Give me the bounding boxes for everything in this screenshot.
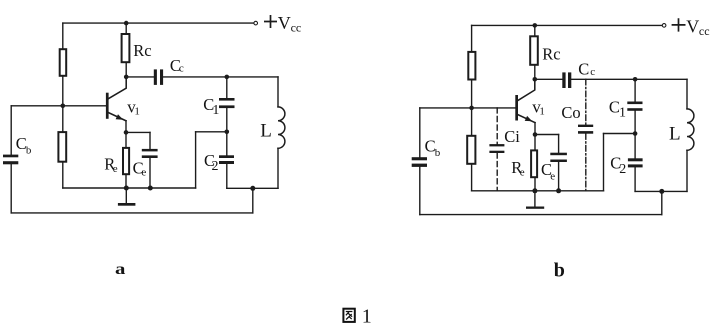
svg-text:e: e xyxy=(520,167,525,179)
svg-text:Rc: Rc xyxy=(133,41,151,60)
svg-text:b: b xyxy=(26,144,32,156)
svg-text:Co: Co xyxy=(561,103,580,122)
svg-text:1: 1 xyxy=(362,306,372,328)
svg-text:1: 1 xyxy=(134,105,140,117)
svg-text:1: 1 xyxy=(619,106,626,121)
svg-text:cc: cc xyxy=(699,24,710,38)
svg-text:a: a xyxy=(115,261,125,278)
svg-text:e: e xyxy=(113,163,118,175)
svg-text:V: V xyxy=(686,16,699,36)
svg-text:e: e xyxy=(550,170,555,182)
svg-text:V: V xyxy=(278,13,291,33)
svg-text:b: b xyxy=(554,260,565,282)
svg-text:Ci: Ci xyxy=(504,127,520,146)
svg-text:Rc: Rc xyxy=(542,45,560,64)
svg-text:2: 2 xyxy=(212,159,219,174)
svg-text:1: 1 xyxy=(539,105,545,117)
svg-text:cc: cc xyxy=(291,20,302,34)
svg-text:1: 1 xyxy=(212,103,219,118)
svg-text:c: c xyxy=(179,63,184,75)
svg-text:L: L xyxy=(260,120,272,141)
svg-text:e: e xyxy=(141,167,146,179)
svg-text:2: 2 xyxy=(619,162,626,177)
svg-text:C: C xyxy=(578,59,589,78)
svg-text:L: L xyxy=(669,123,681,144)
svg-text:b: b xyxy=(435,147,441,159)
svg-text:c: c xyxy=(590,66,595,78)
